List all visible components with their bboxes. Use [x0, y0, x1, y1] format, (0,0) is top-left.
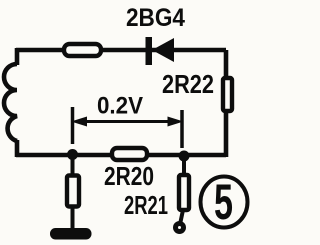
svg-text:5: 5 — [214, 174, 233, 230]
arrowhead left — [71, 117, 87, 127]
terminal output — [176, 224, 184, 232]
diode 2BG4 cathode bar — [146, 37, 153, 65]
node junction right — [179, 151, 190, 162]
resistor R (left, unlabeled) — [67, 176, 79, 207]
svg-text:0.2V: 0.2V — [97, 93, 143, 120]
svg-text:2BG4: 2BG4 — [126, 4, 185, 32]
svg-text:2R20: 2R20 — [104, 161, 154, 191]
wire 2R21 top lead — [182, 156, 186, 176]
resistor 2R21 — [179, 175, 189, 210]
wire left resistor top lead — [71, 155, 75, 176]
inductor L1 — [4, 64, 17, 141]
svg-text:2R21: 2R21 — [124, 190, 168, 220]
wire right rail — [224, 50, 229, 157]
wire 2R21 bottom lead — [181, 210, 184, 222]
diode 2BG4 anode triangle — [152, 38, 174, 62]
svg-text:2R22: 2R22 — [162, 69, 214, 99]
wire top rail — [16, 48, 226, 53]
measurement tick left — [71, 107, 75, 144]
resistor 2R20 — [112, 148, 147, 160]
measurement tick right — [180, 110, 184, 148]
wire left stub bottom — [15, 140, 20, 157]
wire left stub top — [15, 48, 20, 65]
arrowhead right — [168, 117, 184, 127]
figure number circle 5 — [201, 177, 248, 228]
ground — [50, 228, 92, 240]
wire bottom rail — [16, 153, 226, 158]
wire left resistor bottom lead — [71, 206, 75, 230]
measurement arrow line — [76, 120, 179, 123]
resistor top (unlabeled) — [64, 44, 101, 56]
node junction left — [67, 149, 78, 160]
resistor 2R22 — [223, 78, 232, 111]
